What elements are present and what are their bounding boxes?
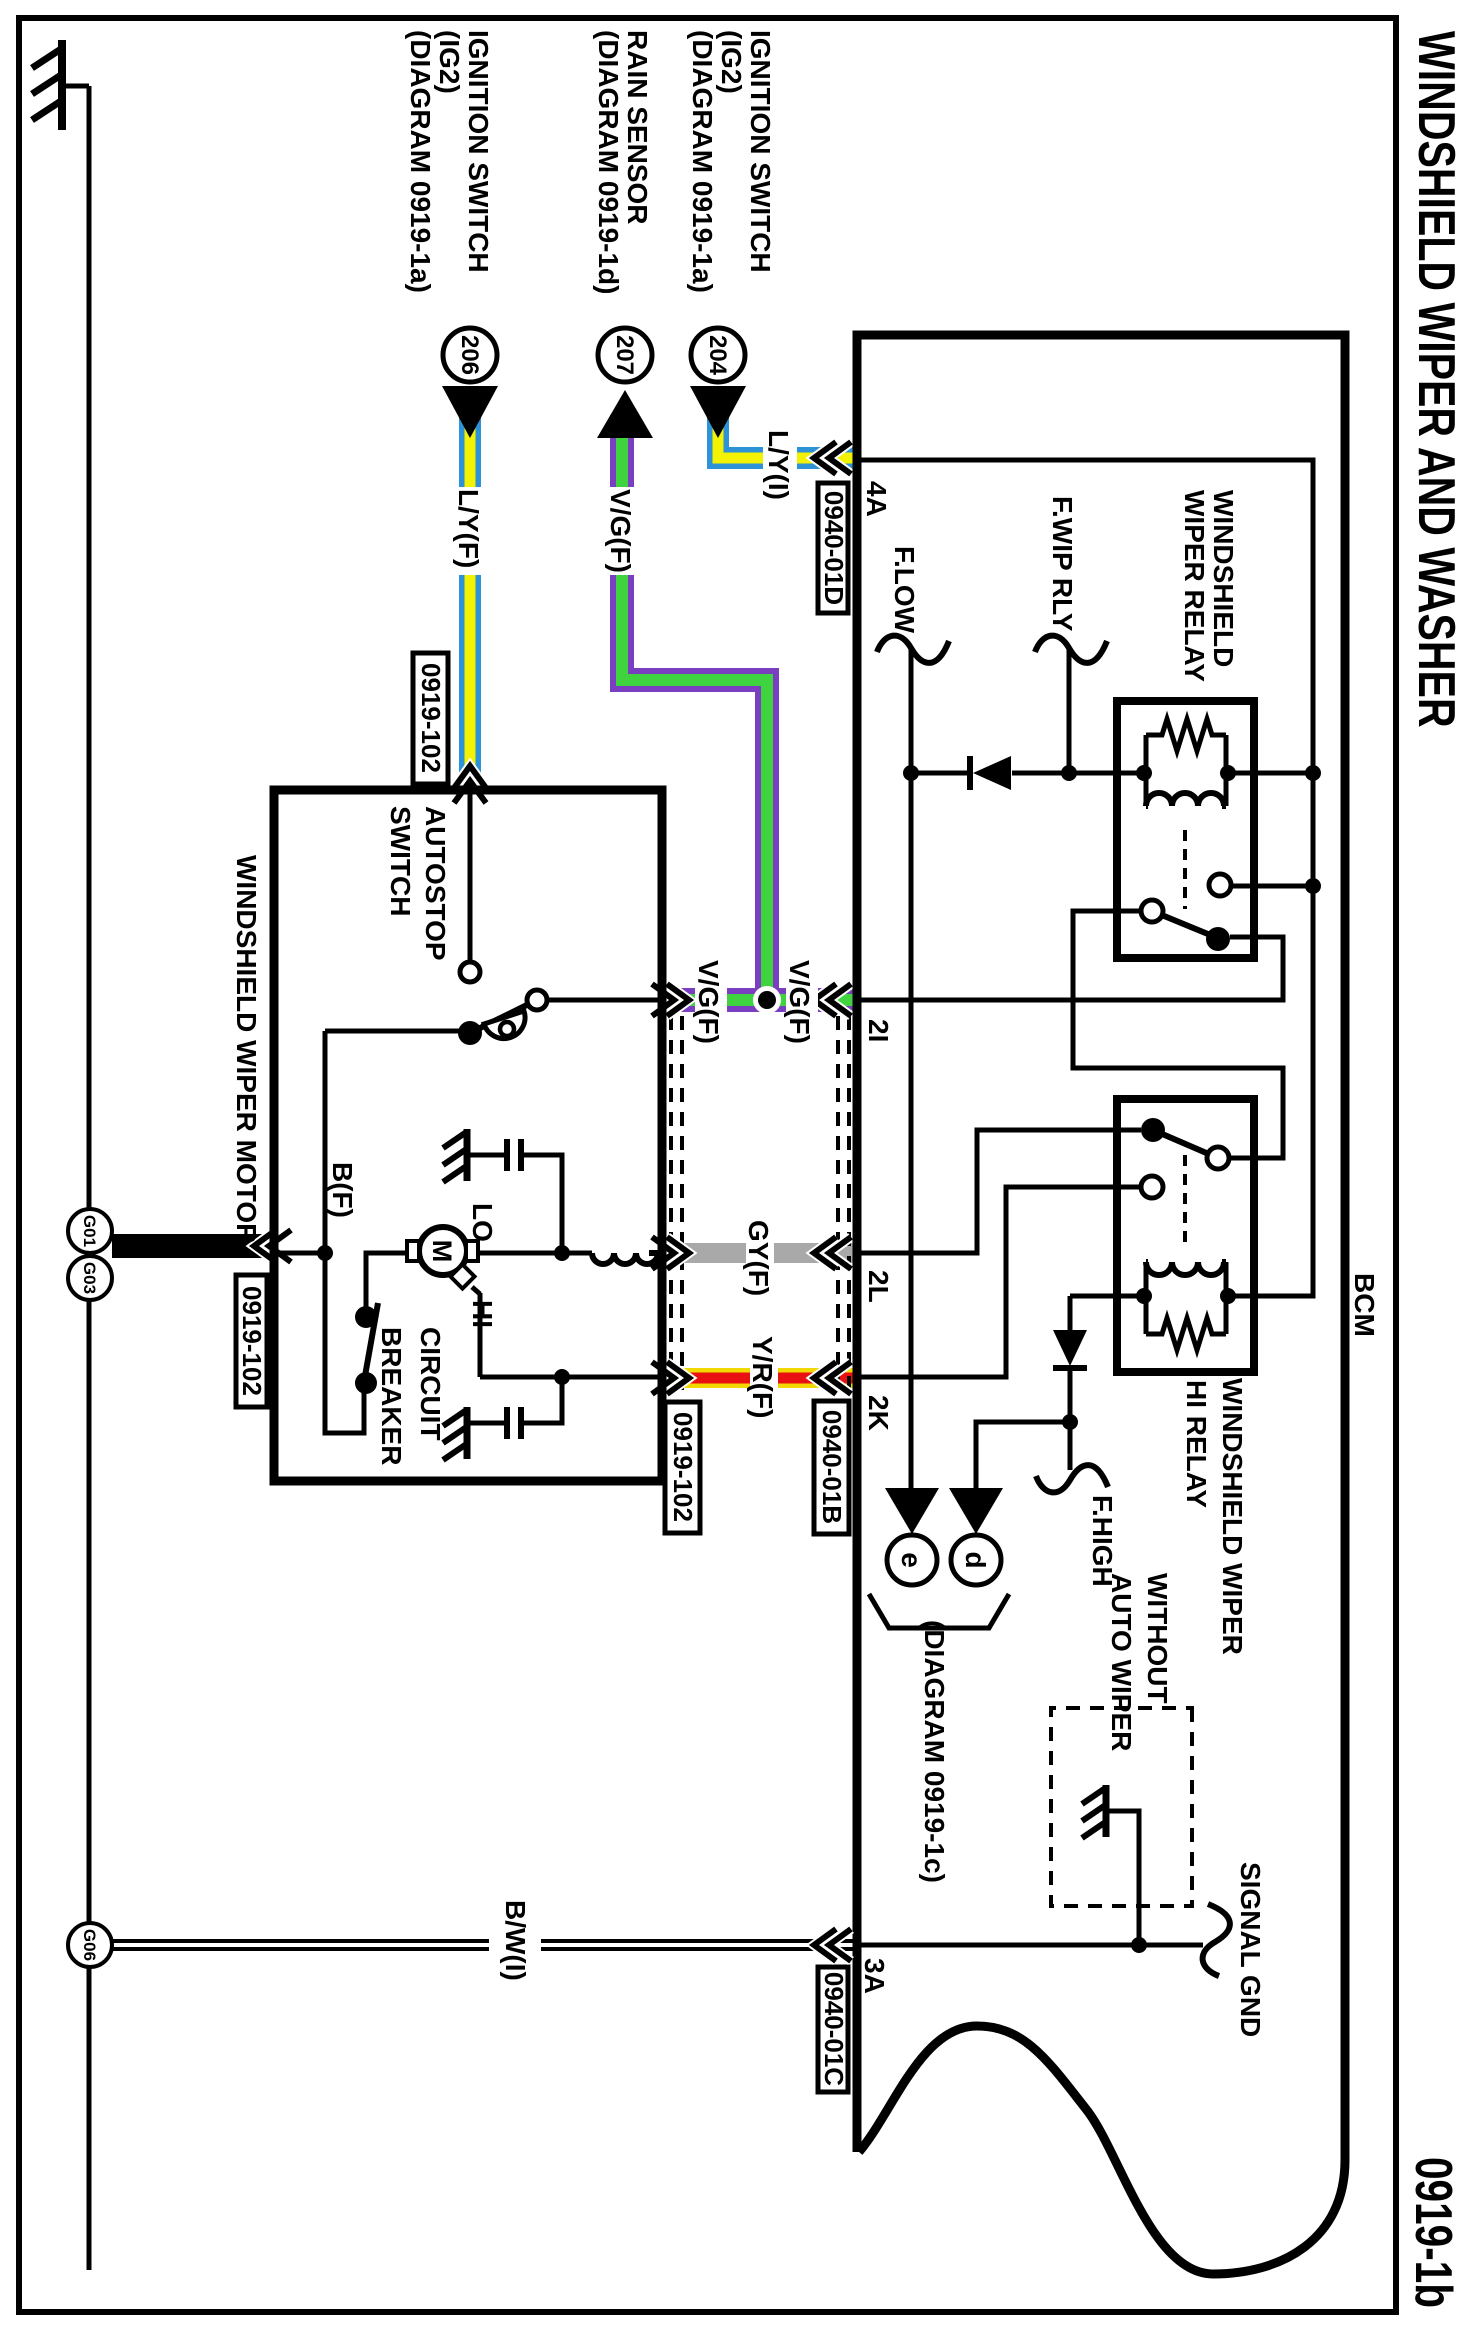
coil L1 (relay1) bbox=[1146, 793, 1226, 806]
wire 3A signal ground bbox=[857, 1943, 1203, 1948]
node relay2 coil bottom bbox=[1136, 1288, 1152, 1304]
relay2 switch arm bbox=[1153, 1130, 1218, 1158]
title: WINDSHIELD WIPER AND WASHER bbox=[1408, 31, 1461, 728]
ground G01 bbox=[68, 1209, 112, 1253]
connector dashed lines motor side bbox=[671, 1016, 682, 1406]
label GY(F) bbox=[743, 1218, 774, 1302]
arrow to connector d bbox=[949, 1488, 1003, 1534]
node bus/relay1 coil bbox=[1305, 765, 1321, 781]
node F.WIP RLY bbox=[1061, 765, 1077, 781]
dashed box without auto wiper bbox=[1051, 1708, 1192, 1906]
svg-text:GY(F): GY(F) bbox=[743, 1220, 774, 1296]
svg-text:AUTO WIPER: AUTO WIPER bbox=[1106, 1573, 1137, 1751]
svg-text:HI RELAY: HI RELAY bbox=[1181, 1380, 1212, 1508]
resistor R2 (relay2 parallel resistor) bbox=[1146, 1318, 1226, 1350]
chassis ground (without auto wiper) bbox=[1082, 1785, 1106, 1838]
svg-text:d: d bbox=[960, 1551, 991, 1568]
svg-text:B(F): B(F) bbox=[327, 1162, 358, 1218]
svg-text:WIPER RELAY: WIPER RELAY bbox=[1179, 490, 1210, 682]
wire relay1 coil to diode to F.LOW bbox=[911, 771, 1313, 776]
svg-text:0919-102: 0919-102 bbox=[416, 663, 446, 773]
wire GY(F) vertical between BCM 2L and motor bbox=[663, 1243, 855, 1263]
node F.LOW/diode bbox=[903, 765, 919, 781]
wire 2L to relay2 common bbox=[857, 1130, 1141, 1253]
circuit breaker CB bbox=[355, 1303, 378, 1394]
wire L/Y(I) from 204 to BCM 4A bbox=[718, 415, 855, 458]
node relay2 coil top bbox=[1220, 1288, 1236, 1304]
wire ground stub bbox=[62, 84, 89, 89]
connector label 0919-102 (L/Y) bbox=[413, 653, 448, 784]
wire F.LOW lead to connector e bbox=[909, 648, 914, 1488]
svg-text:F.LOW: F.LOW bbox=[889, 546, 920, 634]
svg-text:0940-01D: 0940-01D bbox=[819, 491, 849, 605]
connector circle e bbox=[887, 1535, 937, 1585]
relay2 contact NC (circle) bbox=[1141, 1176, 1163, 1198]
wire Y/R(F) vertical between BCM 2K and motor bbox=[663, 1368, 855, 1388]
ground G06 bbox=[68, 1923, 112, 1967]
wire HI from motor bbox=[472, 1287, 658, 1377]
svg-text:0919-102: 0919-102 bbox=[237, 1286, 267, 1396]
motor box bbox=[274, 790, 662, 1481]
wire LO tap to capacitor C1 bbox=[470, 1155, 562, 1253]
resistor R1 (relay1 parallel resistor) bbox=[1146, 719, 1226, 751]
breaker arm bbox=[365, 1303, 378, 1376]
relay1 common (dot) bbox=[1206, 927, 1230, 951]
wire ground tap into dashed box bbox=[1109, 1811, 1139, 1945]
wire autostop fixed contact bbox=[468, 790, 473, 961]
connector chevron 3A bbox=[814, 1929, 851, 1961]
node LO capacitor tap bbox=[554, 1245, 570, 1261]
svg-text:(IG2): (IG2) bbox=[434, 30, 465, 94]
chevrons V/G row bbox=[652, 984, 851, 1016]
wire relay1 contact from bus bbox=[1231, 884, 1313, 889]
svg-text:WINDSHIELD WIPER: WINDSHIELD WIPER bbox=[1217, 1378, 1248, 1655]
arrow from 204 bbox=[690, 386, 746, 438]
diode D2 (pointing right) bbox=[1053, 1330, 1087, 1368]
svg-text:0940-01B: 0940-01B bbox=[817, 1410, 847, 1524]
svg-text:WINDSHIELD WIPER AND WASHER: WINDSHIELD WIPER AND WASHER bbox=[1408, 31, 1461, 728]
wire breaker to motor bbox=[366, 1253, 408, 1317]
wire arm contact to V/G out bbox=[547, 998, 658, 1003]
autostop arm bbox=[470, 1000, 537, 1033]
svg-text:204: 204 bbox=[704, 335, 731, 376]
break symbol F.WIP RLY bbox=[1035, 636, 1107, 663]
svg-text:BCM: BCM bbox=[1349, 1273, 1380, 1337]
svg-text:IGNITION SWITCH: IGNITION SWITCH bbox=[463, 30, 494, 273]
ground G03 bbox=[68, 1256, 112, 1300]
svg-text:(DIAGRAM 0919-1a): (DIAGRAM 0919-1a) bbox=[405, 30, 436, 293]
arrow into 207 bbox=[597, 390, 653, 438]
svg-text:SIGNAL GND: SIGNAL GND bbox=[1235, 1862, 1266, 2037]
svg-text:0940-01C: 0940-01C bbox=[819, 1972, 849, 2086]
svg-text:IGNITION SWITCH: IGNITION SWITCH bbox=[745, 30, 776, 273]
BCM torn edge S-curve bbox=[859, 2026, 1345, 2274]
connector label 0919-102 (B(F)) bbox=[236, 1275, 267, 1407]
svg-text:AUTOSTOP: AUTOSTOP bbox=[420, 806, 451, 961]
chassis ground symbol (top-left of portrait) bbox=[32, 40, 62, 130]
connector label 0940-01D bbox=[818, 483, 849, 613]
wire B(F) into box bbox=[272, 1251, 325, 1256]
chassis ground (C2) bbox=[443, 1407, 467, 1460]
connector circle 204 bbox=[691, 328, 745, 382]
svg-text:2L: 2L bbox=[863, 1270, 894, 1303]
autostop pivot (dot) bbox=[458, 1021, 482, 1045]
connector chevron L/Y into motor left edge bbox=[454, 766, 486, 803]
relay1 dashed actuator line bbox=[1183, 830, 1187, 909]
autostop cam bbox=[484, 1011, 525, 1038]
break symbol F.LOW bbox=[877, 636, 949, 663]
relay2 common (dot) bbox=[1141, 1118, 1165, 1142]
svg-text:M: M bbox=[427, 1240, 457, 1263]
node pivot bus / B(F) bbox=[317, 1245, 333, 1261]
breaker contact dots bbox=[355, 1372, 377, 1394]
wire 4A power bus bbox=[857, 460, 1313, 1296]
node relay1 coil top bbox=[1220, 765, 1236, 781]
svg-text:WITHOUT: WITHOUT bbox=[1142, 1573, 1173, 1704]
svg-text:0919-1b: 0919-1b bbox=[1405, 2157, 1461, 2308]
connector circle d bbox=[951, 1535, 1001, 1585]
svg-text:207: 207 bbox=[611, 335, 638, 375]
svg-text:3A: 3A bbox=[859, 1958, 890, 1994]
label V/G(F) right of junction bbox=[784, 958, 818, 1050]
autostop arm contact (circle) bbox=[527, 990, 547, 1010]
relay2 contact NO (circle) bbox=[1207, 1147, 1229, 1169]
wire L/Y(F) from 206 to motor box bbox=[459, 415, 481, 790]
wire relay1 NC to relay2 NO bbox=[1073, 911, 1283, 1158]
svg-text:G06: G06 bbox=[80, 1929, 99, 1961]
relay1 contact NO (circle) bbox=[1209, 874, 1231, 896]
svg-text:(DIAGRAM 0919-1a): (DIAGRAM 0919-1a) bbox=[687, 30, 718, 293]
svg-text:WINDSHIELD WIPER MOTOR: WINDSHIELD WIPER MOTOR bbox=[231, 855, 262, 1243]
svg-text:SWITCH: SWITCH bbox=[385, 806, 416, 916]
svg-text:G03: G03 bbox=[80, 1262, 99, 1294]
wire junction to connector d bbox=[976, 1422, 1070, 1488]
arrow from 206 bbox=[442, 386, 498, 438]
svg-text:B/W(I): B/W(I) bbox=[500, 1900, 531, 1981]
node F.HIGH junction bbox=[1062, 1414, 1078, 1430]
break symbol SIGNAL GND bbox=[1203, 1904, 1230, 1976]
svg-text:RAIN SENSOR: RAIN SENSOR bbox=[622, 30, 653, 224]
svg-text:Y/R(F): Y/R(F) bbox=[747, 1336, 778, 1418]
svg-text:4A: 4A bbox=[861, 481, 892, 517]
node relay1 coil bottom bbox=[1136, 765, 1152, 781]
node bus/relay1 contact bbox=[1305, 878, 1321, 894]
svg-text:V/G(F): V/G(F) bbox=[784, 960, 815, 1044]
label Y/R(F) bbox=[747, 1334, 778, 1426]
wire HI tap to capacitor C2 bbox=[470, 1377, 562, 1423]
relay U2 box bbox=[1117, 1099, 1254, 1372]
wire B(F) thick bar from G01/G03 to motor bbox=[112, 1234, 264, 1258]
connector dashed lines BCM side bbox=[838, 1016, 849, 1406]
svg-text:L/Y(F): L/Y(F) bbox=[453, 489, 484, 568]
connector chevron L/Y(I) into BCM 4A bbox=[814, 442, 851, 474]
label L/Y(I) bbox=[763, 428, 797, 514]
connector chevron B(F) into motor bbox=[254, 1230, 291, 1262]
svg-text:LO: LO bbox=[467, 1203, 498, 1242]
label L/Y(F) bbox=[453, 487, 487, 575]
svg-text:V/G(F): V/G(F) bbox=[693, 960, 724, 1044]
node 3A ground tap bbox=[1131, 1937, 1147, 1953]
svg-text:F.WIP RLY: F.WIP RLY bbox=[1047, 496, 1078, 632]
BCM box outline with torn S-curve right end bbox=[857, 335, 1345, 2160]
relay U1 box bbox=[1117, 701, 1254, 958]
chassis ground (C1) bbox=[443, 1129, 467, 1182]
svg-text:G01: G01 bbox=[80, 1215, 99, 1247]
autostop fixed contact (circle) bbox=[460, 962, 480, 982]
svg-text:L/Y(I): L/Y(I) bbox=[763, 430, 794, 500]
connector circle 207 bbox=[598, 328, 652, 382]
capacitor C1 bbox=[507, 1139, 521, 1171]
connector label 0940-01B (BCM side) bbox=[814, 1401, 849, 1534]
node HI capacitor tap bbox=[554, 1369, 570, 1385]
wire V/G(F) from 207 bbox=[622, 415, 767, 1002]
svg-text:V/G(F): V/G(F) bbox=[605, 489, 636, 573]
arrow to connector e bbox=[885, 1488, 939, 1534]
coil L3 (motor LO noise coil) bbox=[592, 1253, 658, 1264]
wire relay2 coil to diode to F.HIGH bbox=[1070, 1296, 1144, 1470]
relay1 switch arm bbox=[1152, 911, 1220, 939]
chevrons GY row bbox=[652, 1237, 851, 1269]
wire F.WIP RLY lead bbox=[1067, 648, 1072, 773]
connector label 0940-01C bbox=[818, 1967, 849, 2092]
break symbol F.HIGH bbox=[1036, 1465, 1108, 1492]
svg-text:206: 206 bbox=[456, 335, 483, 375]
diode D1 (pointing down) bbox=[970, 756, 1011, 790]
relay U1 rails bbox=[1146, 735, 1226, 806]
wire 2I to relay1 common bbox=[857, 937, 1283, 1000]
relay2 dashed actuator line bbox=[1183, 1155, 1187, 1244]
wire pivot to breaker bus bbox=[325, 1031, 459, 1433]
wire B/W(I) double line from G06 to BCM 3A bbox=[112, 1900, 855, 1981]
wire 2K to relay2 NC bbox=[857, 1187, 1141, 1377]
relay U2 rails bbox=[1146, 1262, 1226, 1334]
connector circle 206 bbox=[443, 328, 497, 382]
connector label 0919-102 (motor side) bbox=[665, 1402, 700, 1533]
chevrons Y/R row bbox=[652, 1362, 851, 1394]
motor M bbox=[407, 1227, 478, 1289]
svg-text:2K: 2K bbox=[863, 1395, 894, 1431]
capacitor C2 bbox=[507, 1407, 521, 1439]
bracket for e/d bbox=[869, 1594, 1009, 1628]
svg-text:2I: 2I bbox=[863, 1019, 894, 1042]
svg-text:BREAKER: BREAKER bbox=[376, 1327, 407, 1465]
svg-text:e: e bbox=[896, 1552, 927, 1568]
svg-text:(IG2): (IG2) bbox=[716, 30, 747, 94]
relay1 contact NC (circle) bbox=[1141, 900, 1163, 922]
coil L2 (relay2) bbox=[1146, 1262, 1226, 1275]
svg-text:(DIAGRAM 0919-1d): (DIAGRAM 0919-1d) bbox=[593, 30, 624, 294]
wire V/G(F) vertical between BCM 2I and motor bbox=[663, 988, 855, 1012]
wire ground bus bbox=[87, 86, 92, 2270]
page number 0919-1b bbox=[1405, 2157, 1461, 2308]
wire LO from motor to coil bbox=[478, 1251, 658, 1256]
svg-text:(DIAGRAM 0919-1c): (DIAGRAM 0919-1c) bbox=[919, 1620, 950, 1883]
junction node V/G bbox=[753, 986, 781, 1014]
svg-text:WINDSHIELD: WINDSHIELD bbox=[1208, 490, 1239, 667]
label V/G(F) left of junction bbox=[693, 958, 727, 1050]
svg-text:0919-102: 0919-102 bbox=[668, 1412, 698, 1522]
label V/G(F) bbox=[605, 487, 639, 575]
